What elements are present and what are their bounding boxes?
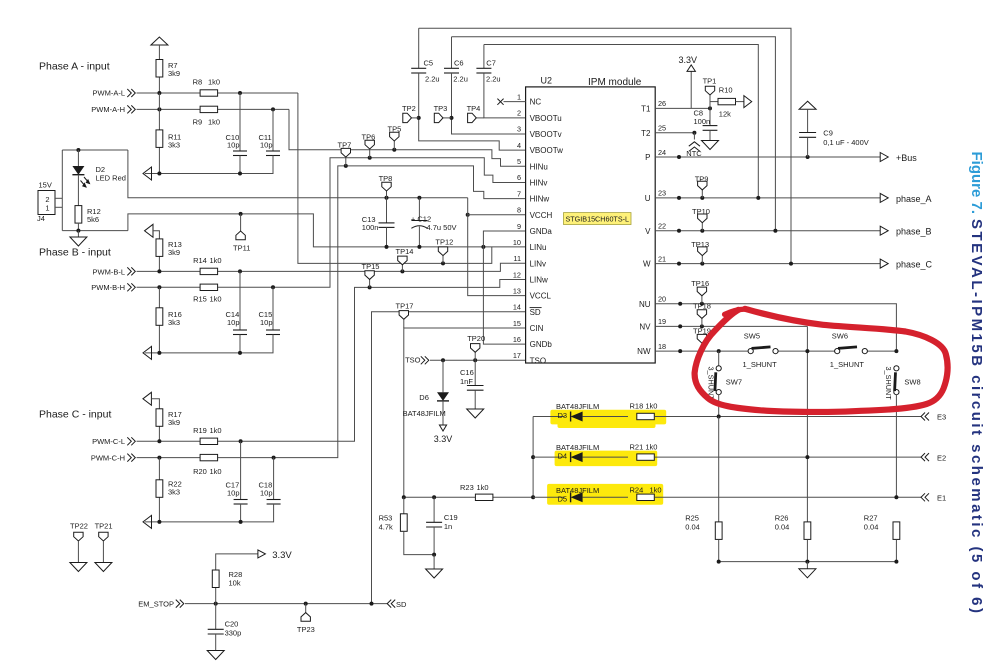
capacitor C8 <box>703 126 718 131</box>
junction D2 anode <box>76 148 80 152</box>
svg-text:GNDa: GNDa <box>530 227 553 236</box>
svg-text:2.2u: 2.2u <box>486 74 501 83</box>
test point TP14 symbol <box>398 256 407 265</box>
svg-text:phase_A: phase_A <box>896 194 932 204</box>
svg-text:EM_STOP: EM_STOP <box>138 600 174 609</box>
wire GND rail (wire B) <box>128 214 526 247</box>
test point TP5 symbol <box>390 132 399 141</box>
junction bootstrap vertical on phase_B <box>773 229 777 233</box>
svg-text:R8: R8 <box>193 77 203 86</box>
svg-text:J4: J4 <box>37 214 45 223</box>
svg-text:SW6: SW6 <box>832 331 848 340</box>
svg-text:R15: R15 <box>193 295 207 304</box>
wire PWM-C-L to LINw <box>137 280 526 442</box>
svg-text:100n: 100n <box>362 223 379 232</box>
wire C19 top lead <box>433 497 435 522</box>
capacitor C18 <box>267 500 281 505</box>
output chevron E2 <box>921 453 929 461</box>
diode D6 <box>437 392 449 401</box>
svg-text:R23: R23 <box>460 483 474 492</box>
junction TP1/C8/R10 <box>708 106 712 110</box>
svg-text:SD: SD <box>530 308 541 317</box>
wire C19 bottom lead <box>433 527 435 555</box>
svg-text:Figure 7.: Figure 7. <box>968 152 985 215</box>
wire diode feed vertical <box>532 417 534 498</box>
wire D5 to R24 <box>583 496 628 498</box>
svg-text:TP5: TP5 <box>388 124 402 133</box>
wire U2 to phase_B <box>655 230 880 232</box>
svg-text:0.04: 0.04 <box>685 523 700 532</box>
svg-text:15: 15 <box>513 319 521 328</box>
output arrow phase_B <box>880 226 888 235</box>
wire C14 bottom lead <box>239 335 241 353</box>
switch SW5 <box>748 347 778 354</box>
svg-text:0.04: 0.04 <box>864 523 879 532</box>
wire phase B ground rail <box>145 335 273 353</box>
highlight D4/R21 row <box>555 451 658 467</box>
wire bootstrap C7 to phase_A <box>484 45 758 198</box>
resistor R8 <box>200 90 218 96</box>
svg-text:Phase B - input: Phase B - input <box>39 247 111 259</box>
svg-text:R26: R26 <box>775 514 789 523</box>
test point TP8 symbol <box>382 182 391 191</box>
test point TP20 symbol <box>471 344 480 353</box>
wire ground stem J4 <box>77 231 79 237</box>
svg-text:W: W <box>643 260 651 269</box>
svg-text:TP2: TP2 <box>402 104 416 113</box>
wire C6 to VBOOTv <box>452 73 526 134</box>
svg-text:R21 1k0: R21 1k0 <box>630 442 658 451</box>
power arrow phase A rail <box>143 167 152 180</box>
svg-text:15V: 15V <box>39 180 52 189</box>
junction R11 top <box>157 107 161 111</box>
svg-text:1: 1 <box>517 92 521 101</box>
wire SW7 bottom to E3 <box>718 395 720 417</box>
wire VCC to VCCH pin 8 <box>468 214 526 216</box>
junction NV stub <box>678 324 682 328</box>
junction SD vertical <box>370 602 374 606</box>
svg-text:R27: R27 <box>864 514 878 523</box>
svg-text:PWM-C-H: PWM-C-H <box>91 454 125 463</box>
power arrow right of R10 <box>744 96 752 108</box>
svg-text:TP6: TP6 <box>362 132 376 141</box>
wire ground stem R53/C19 <box>433 555 435 569</box>
wire NTC stem <box>693 133 695 140</box>
junction C15 top <box>271 285 275 289</box>
wire TP6 stem <box>369 149 371 158</box>
svg-text:TP13: TP13 <box>691 240 709 249</box>
wire C7 to VBOOTu <box>484 73 526 118</box>
wire TP20 stem <box>474 352 476 360</box>
wire T1 pin 26 <box>655 107 710 109</box>
wire NU line <box>655 304 896 351</box>
wire D4 to R21 <box>583 456 628 458</box>
junction NV vertical on NW <box>805 349 809 353</box>
svg-text:TP18: TP18 <box>693 302 711 311</box>
wire phase C ground rail <box>145 504 274 522</box>
svg-text:R20: R20 <box>193 467 207 476</box>
svg-text:C7: C7 <box>486 59 496 68</box>
junction R16 bottom on rail B <box>157 351 161 355</box>
capacitor C13 <box>379 223 395 228</box>
svg-text:V: V <box>645 227 651 236</box>
svg-text:10: 10 <box>513 238 521 247</box>
junction TP16 <box>700 302 704 306</box>
svg-text:6: 6 <box>517 173 521 182</box>
svg-text:3k3: 3k3 <box>168 318 180 327</box>
svg-text:SW5: SW5 <box>744 331 760 340</box>
wire R26 bottom lead <box>806 539 808 561</box>
svg-text:TP8: TP8 <box>379 174 393 183</box>
connector J4 <box>38 191 55 215</box>
wire TP8 stem <box>386 191 388 198</box>
junction C11 top <box>271 107 275 111</box>
svg-text:3k3: 3k3 <box>168 140 180 149</box>
svg-text:10k: 10k <box>229 579 241 588</box>
svg-text:GNDb: GNDb <box>530 340 553 349</box>
test point TP13 symbol <box>698 247 707 256</box>
svg-text:VBOOTv: VBOOTv <box>530 130 562 139</box>
junction bootstrap vertical on phase_C <box>789 262 793 266</box>
svg-text:4.7k: 4.7k <box>379 522 393 531</box>
power arrow phase B top <box>145 224 154 237</box>
test point TP6 symbol <box>365 140 374 149</box>
svg-text:TP10: TP10 <box>692 207 710 216</box>
svg-text:TP1: TP1 <box>703 77 717 86</box>
junction TP13 <box>700 262 704 266</box>
junction TP2 <box>417 116 421 120</box>
svg-text:3k9: 3k9 <box>168 69 180 78</box>
junction C13 bottom on GND line <box>385 245 389 249</box>
wire 3.3V stem T1 <box>690 71 692 108</box>
svg-text:10p: 10p <box>260 318 273 327</box>
wire D6 cathode lead <box>442 401 444 425</box>
svg-text:8: 8 <box>517 206 521 215</box>
svg-text:3k3: 3k3 <box>168 487 180 496</box>
test point TP7 <box>344 164 348 168</box>
test point TP2 symbol <box>403 113 412 122</box>
junction R16 top <box>157 285 161 289</box>
junction C17 top <box>239 439 243 443</box>
wire C15 top lead <box>272 287 274 330</box>
svg-text:23: 23 <box>658 189 666 198</box>
svg-text:Phase C - input: Phase C - input <box>39 409 111 421</box>
svg-text:NU: NU <box>639 300 651 309</box>
junction SW7 column on E3 <box>717 415 721 419</box>
wire E1 row left <box>533 496 565 498</box>
wire shunt ground rail <box>719 561 897 563</box>
junction C19 top <box>432 495 436 499</box>
resistor R11 <box>156 130 163 148</box>
svg-text:LED Red: LED Red <box>96 174 126 183</box>
svg-text:TP17: TP17 <box>396 302 414 311</box>
svg-text:18: 18 <box>658 342 666 351</box>
svg-text:7: 7 <box>517 189 521 198</box>
svg-text:19: 19 <box>658 317 666 326</box>
capacitor C20 <box>208 629 224 634</box>
wire TP10 stem <box>701 223 703 231</box>
svg-text:LINv: LINv <box>530 259 546 268</box>
wire E3 to R25 <box>718 417 720 522</box>
svg-text:10p: 10p <box>260 141 273 150</box>
svg-text:100n: 100n <box>694 117 711 126</box>
svg-text:D6: D6 <box>419 393 429 402</box>
wire TP11 stem <box>240 214 242 231</box>
resistor R13 <box>156 239 163 257</box>
wire phase A ground rail <box>145 156 273 174</box>
test point TP14 <box>400 269 404 273</box>
svg-text:PWM-A-L: PWM-A-L <box>93 89 126 98</box>
wire TP15 stem <box>369 279 371 287</box>
resistor R20 <box>200 454 218 460</box>
test point TP3 symbol <box>434 113 443 122</box>
junction NTC <box>692 131 696 135</box>
pin 1 NC no-connect X and stub <box>504 101 526 103</box>
test point TP7 symbol <box>341 148 350 157</box>
junction NW stub <box>678 349 682 353</box>
svg-text:16: 16 <box>513 335 521 344</box>
resistor R15 <box>200 284 218 290</box>
test point TP4 symbol <box>468 113 477 122</box>
input chevron PWM-C-H <box>127 454 135 462</box>
svg-text:5: 5 <box>517 157 521 166</box>
svg-text:1n: 1n <box>444 522 452 531</box>
svg-text:R18 1k0: R18 1k0 <box>630 402 658 411</box>
output arrow +Bus <box>880 153 888 162</box>
svg-text:2: 2 <box>517 109 521 118</box>
test point TP11 symbol <box>236 231 245 240</box>
wire TP5 stem <box>393 141 395 150</box>
diode D4 <box>571 452 583 462</box>
svg-text:R9: R9 <box>193 118 203 127</box>
wire C12 bottom lead <box>418 227 420 247</box>
capacitor C6 <box>444 68 459 73</box>
resistor R9 <box>200 106 218 112</box>
svg-text:SW8: SW8 <box>904 377 920 386</box>
wire T2 pin 25 <box>655 132 694 134</box>
wire bootstrap C6 to phase_B <box>452 37 776 231</box>
wire NV line <box>655 325 807 327</box>
capacitor C19 <box>426 522 442 527</box>
svg-text:2.2u: 2.2u <box>453 74 468 83</box>
input chevron PWM-C-L <box>127 437 135 445</box>
junction R53 top <box>402 495 406 499</box>
wire TP1 to C8 <box>709 95 711 126</box>
wire C16 bottom lead <box>474 390 476 409</box>
wire C10 top lead <box>239 93 241 151</box>
wire TP12 stem <box>442 256 444 264</box>
wire TP13 stem <box>701 256 703 264</box>
junction D5 feed <box>531 495 535 499</box>
junction R22 bottom on rail C <box>157 520 161 524</box>
svg-text:17: 17 <box>513 351 521 360</box>
svg-text:R53: R53 <box>379 513 393 522</box>
highlight D3/R18 row <box>550 410 666 425</box>
wire U2 to phase_A <box>655 197 880 199</box>
ground C8 <box>702 141 719 150</box>
svg-text:C5: C5 <box>424 59 434 68</box>
resistor R25 <box>715 522 722 540</box>
svg-text:VBOOTu: VBOOTu <box>530 114 562 123</box>
test point TP5 <box>392 148 396 152</box>
resistor R12 <box>75 206 82 224</box>
junction C12 top <box>417 196 421 200</box>
junction TP3 <box>450 116 454 120</box>
capacitor C12 (polarized) <box>411 221 427 229</box>
junction R11 bottom on rail A <box>157 172 161 176</box>
wire 15V rail to VCC (wire A) <box>128 150 468 198</box>
svg-text:VCCL: VCCL <box>530 292 552 301</box>
svg-text:T2: T2 <box>641 129 651 138</box>
power arrow phase B rail <box>143 346 152 359</box>
wire CIN pin to filter node <box>404 328 526 497</box>
wire PWM-A-H to HINu <box>289 109 526 166</box>
wire C17 bottom lead <box>240 504 242 522</box>
junction C12 bottom on GND line <box>417 245 421 249</box>
svg-text:1k0: 1k0 <box>208 118 220 127</box>
svg-text:10p: 10p <box>260 488 273 497</box>
test point TP11 <box>239 212 243 216</box>
test point TP18 symbol <box>697 310 706 319</box>
input chevron PWM-A-L <box>127 89 135 97</box>
wire C20 bottom lead <box>215 634 217 651</box>
svg-text:TP11: TP11 <box>233 243 250 252</box>
svg-text:C6: C6 <box>454 59 464 68</box>
wire R25 bottom lead <box>718 539 720 561</box>
svg-text:D4: D4 <box>558 451 568 460</box>
junction D4 feed <box>531 455 535 459</box>
junction C17 bottom on rail C <box>239 520 243 524</box>
svg-text:LINw: LINw <box>530 276 548 285</box>
junction C14 bottom on rail B <box>238 351 242 355</box>
wire LED top rail <box>62 149 128 151</box>
input chevron EM_STOP <box>176 600 184 608</box>
svg-text:1k0: 1k0 <box>210 295 222 304</box>
wire TP16 stem <box>701 296 703 304</box>
svg-text:R24: R24 <box>630 485 644 494</box>
ground TP21 <box>95 563 112 572</box>
wire J4 pin1 stub <box>55 206 62 208</box>
svg-text:LINu: LINu <box>530 243 547 252</box>
junction C18 top <box>272 456 276 460</box>
wire P to +Bus <box>655 156 880 158</box>
svg-text:24: 24 <box>658 148 666 157</box>
svg-text:NW: NW <box>637 347 651 356</box>
wire NW line segment 1 <box>655 350 748 352</box>
red hand-drawn circle around SW5-SW8 <box>695 309 948 412</box>
svg-text:NC: NC <box>530 98 542 107</box>
wire E3 row left <box>533 416 565 418</box>
wire J4 left vertical <box>61 150 63 231</box>
svg-text:2.2u: 2.2u <box>425 74 440 83</box>
svg-text:22: 22 <box>658 222 666 231</box>
wire TP19 stem <box>701 343 703 351</box>
svg-text:TSO: TSO <box>530 356 546 365</box>
junction C10 bottom on rail A <box>238 172 242 176</box>
capacitor C7 <box>476 68 491 73</box>
svg-text:26: 26 <box>658 99 666 108</box>
svg-text:10p: 10p <box>227 318 240 327</box>
junction R12 bottom <box>76 229 80 233</box>
input chevron TSO <box>421 356 429 364</box>
wire C10 bottom lead <box>239 156 241 174</box>
wire R53 top lead <box>403 497 405 514</box>
wire NV vertical to R26 <box>806 326 808 521</box>
wire PWM-B-H to HINv <box>137 158 526 287</box>
resistor R53 <box>400 514 407 532</box>
wire GNDa to GNDb vertical <box>483 231 525 344</box>
test point TP21 symbol <box>99 532 108 541</box>
wire E2 row left <box>533 456 565 458</box>
svg-text:1_SHUNT: 1_SHUNT <box>743 360 778 369</box>
svg-text:C9: C9 <box>823 129 833 138</box>
power arrow 3.3V right at R28 <box>258 550 266 558</box>
svg-text:9: 9 <box>517 222 521 231</box>
highlight D5/R24 row <box>547 484 663 505</box>
svg-text:R25: R25 <box>685 514 699 523</box>
output chevron E3 <box>921 413 929 421</box>
test point TP20 <box>473 358 477 362</box>
resistor R22 <box>156 480 163 498</box>
resistor R28 <box>212 570 219 588</box>
wire EM_STOP / SD line <box>185 603 388 605</box>
svg-text:phase_C: phase_C <box>896 260 933 270</box>
wire D2 cathode to R12 <box>77 175 79 206</box>
wire C14 top lead <box>239 271 241 330</box>
wire PWM-A-L to LINu <box>298 93 492 263</box>
junction TP23 <box>304 602 308 606</box>
junction C14 top <box>238 269 242 273</box>
wire SD pin to EM_STOP line <box>372 312 526 604</box>
ground TP22 <box>70 563 87 572</box>
ground J4 section <box>70 237 87 246</box>
test point TP8 <box>385 196 389 200</box>
switch SW7 <box>718 351 720 366</box>
capacitor C9 <box>799 133 816 138</box>
junction NU column on NW <box>894 349 898 353</box>
power arrow C9 top <box>799 101 816 109</box>
wire TP4 lead <box>476 117 484 119</box>
wire R27 bottom lead <box>895 539 897 561</box>
svg-text:1k0: 1k0 <box>210 256 222 265</box>
capacitor C14 <box>233 330 247 335</box>
svg-text:11: 11 <box>513 254 521 263</box>
svg-text:1k0: 1k0 <box>210 467 222 476</box>
svg-text:4.7u 50V: 4.7u 50V <box>427 223 457 232</box>
junction VCC branch <box>466 213 470 217</box>
wire ground stem shunt rail <box>806 562 808 569</box>
svg-text:TP7: TP7 <box>338 141 352 150</box>
svg-text:R19: R19 <box>193 426 207 435</box>
svg-text:R10: R10 <box>719 86 733 95</box>
junction C19/R53 bottoms <box>432 553 436 557</box>
junction SW7 top <box>717 349 721 353</box>
resistor R21 <box>637 454 655 460</box>
output chevron E1 <box>921 493 929 501</box>
wire PWM-B-L to LINv <box>137 263 526 271</box>
wire TP18 stem <box>701 318 703 326</box>
svg-text:0,1 uF - 400V: 0,1 uF - 400V <box>823 138 868 147</box>
svg-text:1nF: 1nF <box>460 377 473 386</box>
junction pin P stub <box>677 155 681 159</box>
wire PWM-C-H to HINw <box>137 166 526 458</box>
capacitor C20 leads <box>215 604 217 630</box>
test point TP19 symbol <box>697 334 706 343</box>
svg-text:U2: U2 <box>541 76 553 86</box>
wire PWM-A-H <box>137 108 290 110</box>
junction D6 top <box>441 358 445 362</box>
capacitor C5 <box>411 68 426 73</box>
